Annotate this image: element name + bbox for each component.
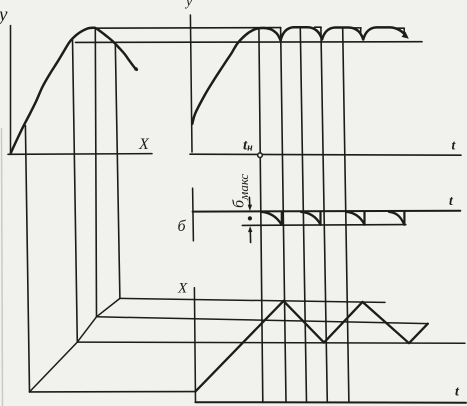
svg-text:у: у: [184, 0, 193, 10]
error pulse 4: [389, 212, 404, 224]
curve y(x) left plot: [11, 28, 137, 153]
axis x (left plot): [8, 153, 152, 156]
svg-text:Х: Х: [177, 281, 188, 297]
axis y (left plot): [10, 26, 12, 155]
level line C (bottom plot): [77, 342, 465, 343]
box perspective diagonal: [30, 298, 120, 392]
sampling line 1 (t_n): [259, 29, 263, 403]
triangular wave x(t): [195, 301, 427, 392]
ripple arc 2: [281, 27, 322, 40]
sampling line 2: [281, 28, 286, 403]
dimension dot: [248, 216, 252, 220]
axis t (right top plot): [190, 154, 461, 155]
arrowhead of upper dimension arrow: [248, 205, 252, 211]
drop line from descending curve crossing (left): [115, 44, 120, 299]
ripple arc 3: [322, 28, 363, 40]
box left vertical edge: [25, 126, 29, 392]
sampling line 5: [343, 29, 349, 403]
top saturation line: [90, 27, 281, 30]
dashed step corner 4: [396, 27, 405, 29]
t axis of error plot: [193, 210, 461, 213]
level line B (bottom plot): [97, 317, 428, 324]
dimension arrow upper stem: [248, 197, 250, 206]
axis x (bottom plot): [194, 288, 195, 402]
box bottom edge: [30, 391, 196, 393]
svg-text:Х: Х: [138, 136, 150, 153]
second level line: [76, 41, 423, 44]
drop line from curve-line2 crossing (left): [73, 39, 78, 342]
scan edge artifact: [2, 128, 3, 406]
axis t (bottom plot): [195, 401, 466, 404]
error pulse 1: [261, 212, 281, 224]
level line A (bottom plot): [120, 298, 385, 302]
arrowhead at ripple end: [402, 32, 409, 39]
error pulse 2: [301, 212, 320, 224]
sampling line 3: [300, 29, 306, 403]
marker circle t_n: [258, 153, 263, 158]
dimension arrow lower stem: [249, 231, 251, 243]
svg-text:б: б: [178, 218, 187, 235]
dashed step corner 2: [315, 26, 322, 28]
sampling line 4: [321, 27, 327, 402]
ink blob at curve end: [134, 67, 138, 71]
axis y (right top plot): [190, 15, 192, 152]
drop line from curve peak (left): [95, 28, 96, 317]
dashed step corner 3: [351, 27, 361, 29]
transient curve y(t): [192, 28, 280, 124]
axis of error plot: [192, 188, 195, 241]
svg-text:у: у: [0, 5, 8, 26]
ripple arc 4 with arrow end: [363, 27, 406, 39]
arrowhead of lower dimension arrow: [248, 226, 252, 232]
error pulse 3: [346, 212, 364, 224]
lower band line of error plot: [242, 224, 405, 227]
